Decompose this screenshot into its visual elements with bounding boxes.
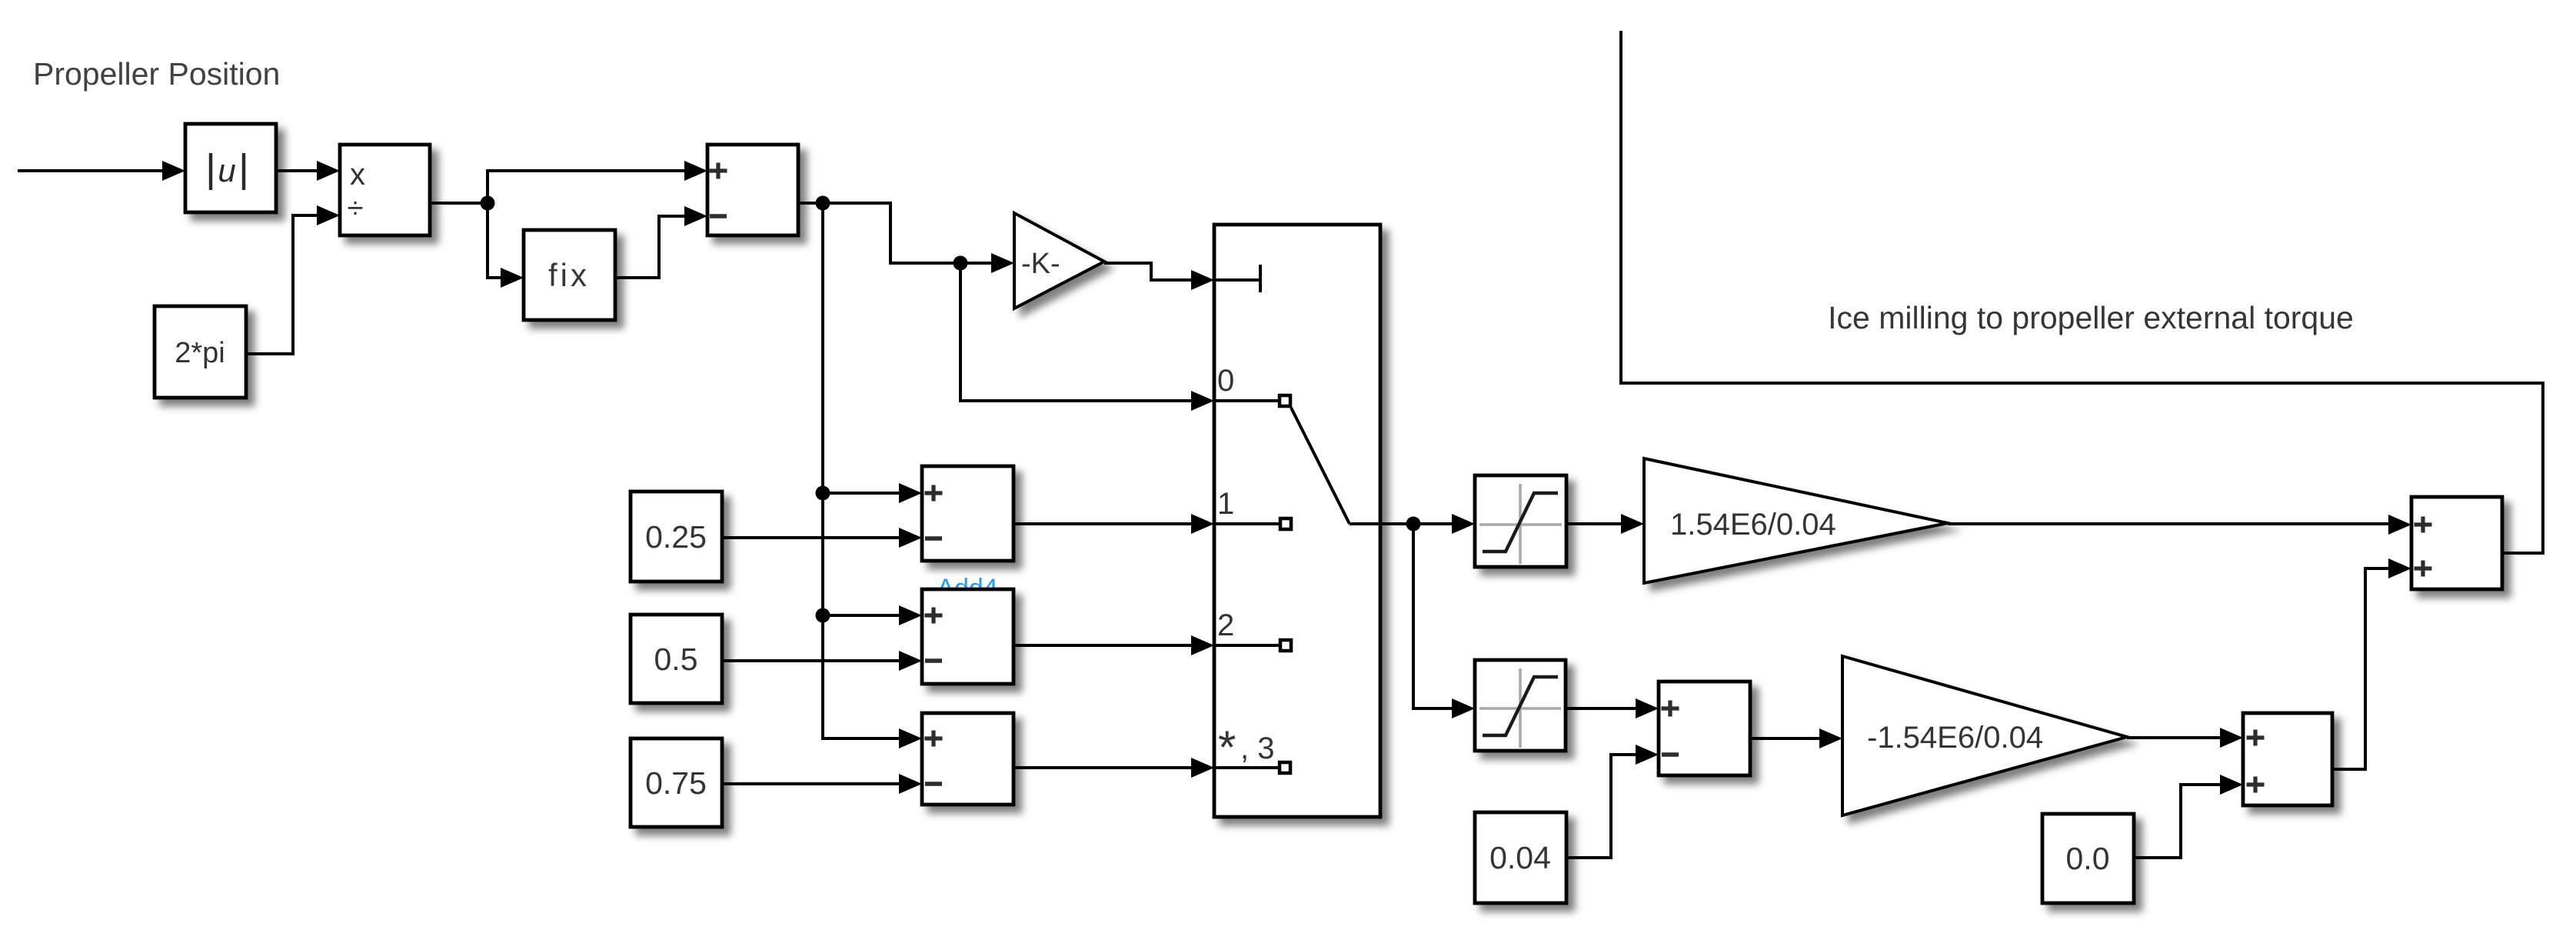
svg-text:, 3: , 3 — [1240, 732, 1274, 765]
switch port label *, 3 — [1218, 722, 1274, 773]
wire: junction to saturation 1 — [1413, 514, 1475, 534]
wire: Sum1 output to junction — [798, 202, 823, 205]
constant label 0.25 — [645, 519, 707, 555]
label Add4 (blue, clipped by block below) — [937, 574, 997, 603]
junction dot before -K- — [954, 256, 968, 271]
sum block Add1 (middle) — [922, 589, 1013, 684]
svg-text:0: 0 — [1217, 364, 1234, 398]
switch port 0 line and square — [1214, 395, 1290, 406]
wire: gain -1.54E6/0.04 to Sum5 plus — [2127, 728, 2243, 748]
Add1 signs — [925, 608, 943, 662]
wire: diagram input to abs — [18, 161, 185, 181]
Sum5 signs — [2247, 730, 2265, 793]
constant 2*pi — [155, 306, 246, 398]
wire: 0.5 to Add1 minus — [722, 651, 922, 671]
constant 0.04 — [1475, 812, 1566, 903]
switch port label 1 — [1217, 487, 1234, 521]
constant 0.0 — [2042, 814, 2134, 903]
svg-text:u: u — [218, 152, 235, 188]
wire: Sum4 output to gain -1.54E6/0.04 — [1750, 728, 1842, 748]
wire: 0.25 to Add minus — [722, 528, 922, 548]
Sum6 signs — [2415, 517, 2432, 577]
product/divide block — [340, 145, 430, 235]
wire: main vertical trunk from Sum1 junction — [823, 203, 922, 748]
svg-text:*: * — [1218, 722, 1236, 773]
svg-text:Ice milling to propeller exter: Ice milling to propeller external torque — [1828, 300, 2354, 335]
gain label -1.54E6/0.04 — [1867, 721, 2043, 755]
gain label -K- — [1021, 248, 1060, 280]
abs block icon |u| — [211, 152, 244, 190]
sum block Sum5 — [2243, 713, 2332, 805]
constant 0.5 — [631, 615, 722, 703]
svg-text:0.25: 0.25 — [645, 519, 707, 555]
wire: junction right then down to -K- — [823, 203, 1014, 273]
switch port 2 line and square — [1214, 640, 1291, 651]
junction dot after switch — [1406, 517, 1421, 532]
switch control port tick — [1214, 265, 1260, 292]
svg-text:0.04: 0.04 — [1489, 840, 1551, 875]
Sum1 signs — [710, 163, 727, 217]
svg-text:0.0: 0.0 — [2066, 841, 2110, 876]
svg-text:÷: ÷ — [348, 192, 364, 225]
svg-text:x: x — [350, 158, 365, 192]
sum block Add2 (bottom) — [922, 713, 1013, 805]
annotation Propeller Position — [33, 56, 280, 92]
constant label 0.0 — [2066, 841, 2110, 876]
wire: saturation 1 to gain — [1566, 514, 1644, 534]
gain label 1.54E6/0.04 — [1670, 508, 1836, 542]
saturation 1 icon — [1479, 484, 1562, 564]
svg-text:1.54E6/0.04: 1.54E6/0.04 — [1670, 508, 1836, 542]
wire: junction up to Sum1 plus — [488, 161, 707, 203]
svg-text:2*pi: 2*pi — [175, 337, 225, 369]
wire: Sum5 output up to final sum second plus — [2332, 558, 2411, 769]
wire: 2*pi to product divide input — [246, 205, 340, 354]
wire: Add output to switch port 1 — [1013, 514, 1214, 534]
wire: fix to Sum1 minus — [615, 206, 707, 278]
junction dot — [481, 196, 495, 211]
annotation Ice milling to propeller external torque — [1828, 300, 2354, 335]
Sum4 signs — [1662, 701, 1679, 755]
product block labels x and divide — [348, 158, 365, 225]
sum block Sum6 (final) — [2411, 497, 2502, 589]
Add signs — [925, 485, 943, 539]
wire: gain 1.54E6/0.04 to final sum — [1948, 515, 2411, 535]
svg-text:0.5: 0.5 — [654, 642, 698, 677]
sum block Sum4 — [1659, 682, 1750, 775]
saturation block 1 — [1475, 475, 1566, 567]
svg-text:-K-: -K- — [1021, 248, 1060, 280]
fix (rounding) block — [524, 230, 615, 320]
switch selector diagonal — [1291, 408, 1380, 524]
constant label 0.5 — [654, 642, 698, 677]
wire: Add2 output to switch port 3 — [1013, 758, 1214, 778]
wire: Add1 output to switch port 2 — [1013, 635, 1214, 655]
wire: junction down to switch port 0 — [960, 263, 1214, 411]
wire: junction down to fix — [488, 203, 524, 288]
svg-text:fix: fix — [548, 257, 590, 293]
constant 0.25 — [631, 492, 722, 582]
wire: 0.04 to Sum4 minus — [1566, 745, 1659, 858]
saturation block 2 — [1475, 660, 1566, 751]
junction dot — [816, 196, 830, 211]
gain 1.54E6/0.04 — [1644, 458, 1948, 583]
junction dot trunk/Add top — [816, 486, 830, 501]
sum block Sum1 — [707, 145, 798, 235]
svg-text:1: 1 — [1217, 487, 1234, 521]
wire: switch output to junction — [1380, 522, 1413, 525]
fix label — [548, 257, 590, 293]
switch port label 2 — [1217, 608, 1234, 642]
constant label 0.75 — [645, 765, 707, 801]
Add2 signs — [925, 731, 943, 785]
constant 0.75 — [631, 738, 722, 827]
sum block Add (top) — [922, 466, 1013, 561]
multiport switch — [1214, 225, 1380, 817]
wire: saturation 2 to Sum4 plus — [1566, 698, 1659, 718]
saturation 2 icon — [1479, 668, 1561, 748]
wire: -K- output to switch control — [1104, 263, 1214, 290]
wire: trunk to Add1 plus — [823, 605, 922, 625]
switch port 1 line and square — [1214, 518, 1291, 529]
constant label 2*pi — [175, 337, 225, 369]
switch port label 0 — [1217, 364, 1234, 398]
wire: trunk to Add plus — [823, 483, 922, 503]
wire: abs to product x input — [276, 161, 340, 181]
wire: junction down to saturation 2 — [1413, 524, 1475, 718]
svg-text:-1.54E6/0.04: -1.54E6/0.04 — [1867, 721, 2043, 755]
svg-text:2: 2 — [1217, 608, 1234, 642]
constant label 0.04 — [1489, 840, 1551, 875]
svg-text:0.75: 0.75 — [645, 765, 707, 801]
wire: 0.0 to Sum5 second plus — [2134, 775, 2243, 858]
wire: product output to junction — [430, 202, 488, 205]
switch port 3 line and square — [1214, 762, 1290, 773]
junction dot trunk/Add1 — [816, 608, 830, 623]
abs block |u| — [185, 124, 276, 212]
gain -K- — [1014, 213, 1104, 308]
wire: 0.75 to Add2 minus — [722, 774, 922, 794]
gain -1.54E6/0.04 — [1842, 656, 2127, 815]
svg-text:Propeller Position: Propeller Position — [33, 56, 280, 92]
wire: final sum output, up and left to top edge — [1621, 31, 2543, 553]
